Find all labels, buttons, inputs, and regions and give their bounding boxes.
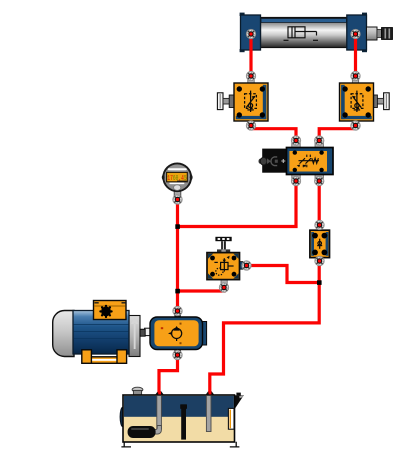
wire FCV-L bottom to DCV port A bbox=[251, 126, 296, 141]
flow control valve V2 (right) bbox=[340, 79, 390, 125]
port node relief valve outlet bbox=[242, 261, 251, 270]
port node pump suction bbox=[173, 350, 182, 359]
port node V2 top bbox=[351, 71, 360, 80]
cylinder A1 (double acting) bbox=[240, 13, 393, 53]
pressure gauge P1 (digital, value 1760,45) bbox=[162, 163, 193, 196]
port node valve U1 port A bbox=[291, 136, 300, 145]
wire pump bottom to tank pipe1 bbox=[159, 355, 178, 393]
port node valve U1 port T bbox=[315, 176, 324, 185]
port node pump outlet bbox=[173, 306, 182, 315]
port node cylinder cap-end bbox=[246, 29, 255, 38]
wire gauge down to pump top bbox=[176, 201, 179, 311]
port node V2 bottom bbox=[351, 121, 360, 130]
wire junction to relief valve bottom bbox=[178, 285, 225, 291]
port node V1 bottom bbox=[246, 121, 255, 130]
junction dot A bbox=[175, 224, 180, 229]
junction dot B bbox=[175, 289, 180, 294]
check valve V3 bbox=[310, 222, 330, 262]
flow control valve V1 (left) bbox=[217, 79, 268, 125]
connection port nodes bbox=[173, 29, 360, 359]
wire FCV-R bottom to DCV port B bbox=[319, 126, 355, 141]
port node valve U1 port P bbox=[291, 176, 300, 185]
port node cylinder rod-end bbox=[351, 29, 360, 38]
wire DCV port T to check valve top bbox=[318, 181, 321, 225]
electric motor M1 bbox=[53, 301, 146, 364]
pressure relief valve V4 bbox=[207, 237, 243, 284]
port node relief valve drain bbox=[219, 283, 228, 292]
wire cylinder-right to FCV-R bbox=[354, 36, 357, 76]
wire relief valve right to junction on check line bbox=[247, 266, 320, 283]
red hydraulic lines bbox=[159, 36, 356, 393]
port node check valve top bbox=[315, 220, 324, 229]
wire check valve bottom to tank pipe2 bbox=[210, 261, 319, 393]
directional valve U1 (4/2 solenoid) bbox=[259, 143, 334, 179]
port node check valve bottom bbox=[315, 256, 324, 265]
port node valve U1 port B bbox=[315, 136, 324, 145]
wire DCV port P down-left to gauge line bbox=[178, 181, 297, 227]
port node V1 top bbox=[246, 71, 255, 80]
junction dot C bbox=[317, 280, 322, 285]
hydraulic pump P2 bbox=[145, 314, 207, 353]
wire cylinder-left to FCV-L bbox=[249, 36, 252, 76]
svg-text:1760,45: 1760,45 bbox=[167, 175, 186, 183]
port node gauge bbox=[173, 195, 182, 204]
reservoir tank T1 bbox=[120, 387, 244, 447]
